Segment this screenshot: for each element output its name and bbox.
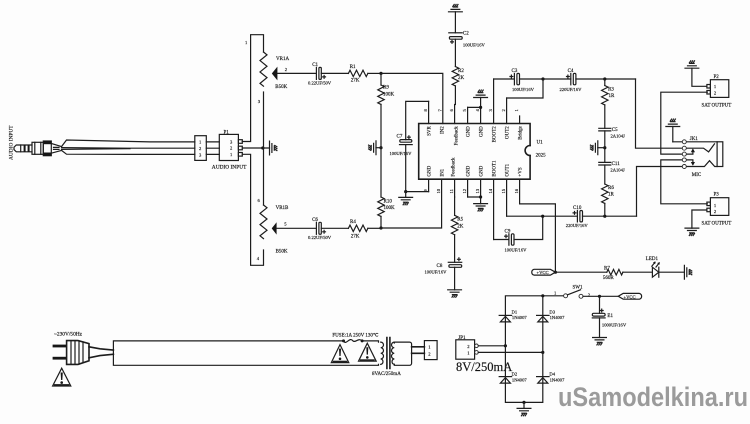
wire C8 to ground (454, 267, 456, 290)
ground pins 12,13 (468, 197, 481, 204)
svg-text:1N4007: 1N4007 (512, 315, 528, 320)
pin labels top row (427, 125, 523, 142)
capacitor C1 (308, 63, 332, 86)
wire VR1B wiper to C6 (277, 227, 317, 229)
resistor R3 (602, 79, 615, 105)
transformer secondary coil (392, 342, 395, 364)
wire C9 to OUT1 node (514, 216, 543, 239)
connector JP1 (456, 336, 512, 374)
svg-text:GND: GND (479, 165, 484, 176)
audio jack plug (14, 141, 62, 156)
switch arrow pin3 up (686, 150, 693, 154)
svg-text:OUT1: OUT1 (505, 163, 510, 176)
svg-text:0.22UF/50V: 0.22UF/50V (308, 81, 332, 86)
svg-text:14: 14 (488, 188, 493, 193)
svg-text:C5: C5 (612, 128, 618, 133)
wire C1 to R1 (321, 72, 348, 74)
svg-text:2K: 2K (457, 225, 464, 230)
svg-text:SAT OUTPUT: SAT OUTPUT (702, 222, 732, 227)
svg-text:P2: P2 (714, 75, 720, 80)
pin stubs bottom (429, 179, 520, 239)
wire pin15 OUT1 to C10 (507, 215, 578, 217)
svg-text:JK1: JK1 (690, 137, 699, 142)
svg-text:VR1A: VR1A (276, 57, 289, 62)
wires connector to P1 (206, 142, 219, 155)
ground below C7 (405, 192, 407, 198)
svg-text:R2: R2 (458, 69, 464, 74)
capacitor C4 (560, 69, 583, 92)
svg-text:11: 11 (449, 188, 454, 193)
op-amp IC U1 TEA2025 body (419, 124, 546, 180)
wire R7 to LED1 (623, 271, 653, 273)
svg-text:FUSE:1A 250V 130℃: FUSE:1A 250V 130℃ (332, 333, 378, 339)
plug shaft rings (21, 145, 32, 152)
svg-text:B50K: B50K (275, 85, 287, 90)
svg-text:R1: R1 (350, 65, 356, 70)
svg-text:GND: GND (479, 126, 484, 137)
wire R9 to mid node (380, 104, 382, 147)
svg-text:C6: C6 (312, 218, 318, 223)
potentiometer VR1B (257, 198, 289, 261)
capacitor C11 (599, 162, 625, 172)
svg-text:C10: C10 (573, 206, 582, 211)
svg-text:8VAC/250mA: 8VAC/250mA (372, 372, 401, 377)
svg-text:R9: R9 (383, 86, 389, 91)
svg-text:2A104J: 2A104J (611, 134, 626, 139)
sleeve line pin1 to frame (673, 141, 717, 143)
svg-text:GND: GND (466, 165, 471, 176)
mains cable box (113, 341, 378, 365)
svg-text:1R: 1R (608, 193, 615, 198)
svg-text:0.22UF/50V: 0.22UF/50V (308, 235, 332, 240)
ground above pins 4,5 (468, 98, 481, 108)
svg-text:R6: R6 (608, 186, 614, 191)
tip contact pin2 with spring (686, 144, 714, 152)
jack frame (717, 142, 723, 167)
svg-text:E1: E1 (607, 314, 613, 319)
node R10/R4/IN1 (379, 226, 382, 229)
ground below bridge (522, 401, 525, 404)
svg-text:100UF/16V: 100UF/16V (390, 151, 413, 156)
audio cable (62, 140, 195, 154)
svg-text:D3: D3 (549, 309, 555, 314)
svg-text:C11: C11 (612, 162, 621, 167)
svg-text:BOOT2: BOOT2 (492, 126, 497, 143)
svg-text:C9: C9 (505, 229, 511, 234)
wire pin8 SVR to C7 (406, 101, 429, 139)
svg-text:2A104J: 2A104J (610, 168, 625, 173)
wire node to C4 (543, 78, 571, 80)
svg-text:220UF/16V: 220UF/16V (566, 223, 589, 228)
node P1 pin2 / pot return (261, 146, 264, 149)
svg-text:JP1: JP1 (458, 336, 466, 341)
wire C10 to node B (583, 215, 637, 217)
svg-text:10: 10 (436, 188, 441, 193)
resistor R6 (602, 165, 615, 203)
svg-text:100K: 100K (383, 92, 395, 97)
resistor R9 (378, 73, 395, 104)
resistor R2 (452, 39, 464, 86)
plug collar (43, 141, 51, 156)
wire P1 pin2 to ground (242, 147, 269, 149)
wire C3 to node / jog to pin2 OUT2 (507, 79, 543, 98)
resistor R1 (348, 65, 367, 83)
wire pin14 BOOT1 to C9 (494, 239, 509, 241)
svg-text:220UF/16V: 220UF/16V (560, 87, 583, 92)
svg-text:12: 12 (462, 188, 467, 193)
wire LED1 to ground (659, 271, 684, 273)
LED LED1 (646, 257, 660, 277)
wire VR1A bottom to VR1B top (263, 92, 265, 205)
capacitor C6 (308, 218, 332, 240)
wire R1 to IN2 node (368, 72, 381, 74)
svg-text:R10: R10 (384, 199, 393, 204)
wires transformer to connector (412, 347, 425, 354)
+VCC flag right (618, 293, 641, 299)
diode D4 1N4007 (537, 372, 566, 384)
svg-text:MIC: MIC (692, 173, 702, 178)
svg-text:+VCC: +VCC (537, 270, 549, 275)
wire R6 to node B (604, 203, 606, 216)
wire JP1 pin2 to bridge left (478, 345, 505, 347)
svg-text:D4: D4 (549, 372, 555, 377)
Feedback labels center (451, 126, 459, 177)
wire R3 to C5 (604, 105, 606, 128)
svg-text:R3: R3 (608, 87, 614, 92)
svg-text:SW1: SW1 (573, 286, 584, 291)
wire C7 to ground node (405, 145, 407, 192)
wire R10 to lower node (380, 216, 382, 228)
potentiometer VR1A (245, 40, 289, 104)
+VCC flag left (532, 269, 556, 275)
svg-text:Feedback: Feedback (451, 157, 456, 177)
capacitor C10 (566, 206, 589, 228)
wire C4 to node A (576, 78, 636, 80)
node R1/R9/IN2 (379, 72, 382, 75)
svg-text:+VCC: +VCC (624, 294, 636, 299)
svg-text:IN1: IN1 (440, 168, 445, 176)
ground left of mid node (598, 147, 605, 149)
svg-text:D1: D1 (512, 309, 518, 314)
wire JP1 pin1 to bridge right (478, 351, 543, 353)
transformer secondary enclosure (394, 342, 411, 365)
wire P2 pin2 down to JK1 pin3 (661, 92, 708, 154)
svg-text:LED1: LED1 (646, 257, 659, 262)
plug tip (14, 145, 21, 152)
svg-text:GND: GND (427, 165, 432, 176)
wire node to pin 7 IN2 (381, 73, 443, 123)
switch SW1 (554, 286, 600, 299)
svg-text:IN2: IN2 (440, 126, 445, 134)
svg-text:SVR: SVR (427, 126, 432, 136)
svg-text:OUT2: OUT2 (505, 126, 510, 139)
svg-text:+VS: +VS (518, 167, 523, 176)
wire C5 to mid node (604, 131, 606, 163)
svg-text:27K: 27K (351, 235, 360, 240)
switch arrow pin4 down (686, 160, 693, 164)
svg-text:R4: R4 (350, 220, 356, 225)
svg-text:C3: C3 (512, 69, 518, 74)
svg-text:16: 16 (514, 188, 519, 193)
connector P2 (685, 61, 731, 109)
svg-text:2025: 2025 (536, 154, 547, 159)
node C7/pin9 ground (404, 190, 407, 193)
resistor R4 (348, 220, 367, 240)
svg-text:C8: C8 (437, 264, 443, 269)
capacitor E1 (592, 296, 627, 345)
svg-text:AUDIO INPUT: AUDIO INPUT (9, 125, 15, 160)
pin labels bottom row (427, 160, 523, 177)
svg-text:Bridge: Bridge (518, 125, 523, 139)
ground below P3 (692, 210, 707, 228)
pin stubs top (429, 79, 520, 124)
svg-text:C2: C2 (463, 32, 469, 37)
svg-text:8V/250mA: 8V/250mA (456, 360, 512, 374)
wire pin16 +VS to +VCC (520, 204, 556, 272)
wire to +VCC flag right (600, 295, 619, 297)
svg-text:GND: GND (466, 126, 471, 137)
transformer T primary coil (381, 342, 384, 364)
ground left of node (376, 147, 381, 149)
warning triangle 1 in box (331, 345, 349, 363)
svg-text:D2: D2 (512, 372, 518, 377)
diode D2 1N4007 (499, 372, 527, 384)
pin numbers bottom (423, 188, 519, 193)
capacitor C5 (599, 128, 625, 139)
resistor R5 (451, 197, 463, 235)
wire pin3 BOOT2 to C3 (494, 78, 515, 80)
svg-text:15: 15 (501, 188, 506, 193)
ground right of LED (684, 265, 691, 279)
AC plug (53, 341, 114, 365)
fuse FUSE:1A (332, 333, 378, 343)
wire node A down to JK1 pin2 (636, 79, 683, 148)
svg-text:SAT OUTPUT: SAT OUTPUT (702, 104, 732, 109)
svg-text:27K: 27K (351, 79, 360, 84)
wire R5 to C8 (454, 235, 456, 263)
resistor R7 (603, 266, 623, 281)
svg-text:C1: C1 (312, 63, 318, 68)
svg-text:R5: R5 (457, 218, 463, 223)
node R9/R10/ground (379, 146, 382, 149)
transformer output connector (424, 341, 437, 360)
diode D3 1N4007 (537, 309, 566, 322)
diode D1 1N4007 (499, 309, 527, 322)
plug body (32, 142, 43, 154)
capacitor C3 (510, 69, 535, 92)
capacitor C7 (390, 135, 413, 156)
resistor R10 (378, 148, 395, 217)
warning triangle 2 in box (359, 343, 377, 361)
svg-text:R7: R7 (604, 266, 610, 271)
svg-text:560R: 560R (603, 276, 615, 281)
svg-text:C7: C7 (397, 135, 403, 140)
ground above P2 (692, 68, 707, 86)
svg-text:1N4007: 1N4007 (512, 377, 528, 382)
wire pin9 to ground node (406, 191, 429, 193)
svg-text:AUDIO INPUT: AUDIO INPUT (212, 164, 247, 170)
wire VR1A wiper to C1 (277, 72, 316, 74)
transformer core (387, 338, 390, 369)
wire R2 to pin 6 (454, 86, 456, 105)
pin numbers top (423, 109, 519, 112)
bridge rails (505, 296, 563, 403)
svg-text:P3: P3 (714, 192, 720, 197)
svg-text:U1: U1 (537, 141, 544, 146)
wire C6 to R4 (321, 227, 348, 229)
svg-text:100UF/16V: 100UF/16V (425, 270, 448, 275)
capacitor C2 with ground above (449, 4, 486, 47)
wire R4 to node (368, 227, 381, 229)
svg-text:P1: P1 (224, 130, 230, 135)
wire P1 pin1 down to pot (242, 154, 263, 265)
ring contact pin5 with spring (686, 161, 717, 167)
ground right of P1 (270, 141, 277, 155)
svg-text:~230V/50Hz: ~230V/50Hz (54, 332, 83, 338)
warning triangle below plug (53, 368, 71, 386)
svg-text:100K: 100K (384, 206, 396, 211)
connector P1 (212, 130, 247, 170)
wire P1 pin3 up to pot (242, 35, 263, 142)
wire node B up to JK1 pin5 (637, 167, 683, 217)
wire +VCC node to R7 (555, 271, 606, 273)
svg-text:100UF/16V: 100UF/16V (512, 87, 535, 92)
headphone jack JK1 (666, 119, 723, 178)
svg-text:VR1B: VR1B (276, 206, 289, 211)
svg-text:uSamodelkina.ru: uSamodelkina.ru (558, 382, 748, 412)
capacitor C8 (425, 258, 462, 275)
svg-text:B50K: B50K (276, 250, 288, 255)
jack pin circles (682, 140, 686, 169)
strain relief cone (51, 144, 61, 154)
svg-text:BOOT1: BOOT1 (492, 160, 497, 177)
connector P3 (685, 192, 731, 235)
wire node to pin 10 IN1 (381, 179, 442, 228)
capacitor C9 (505, 229, 528, 252)
svg-text:Feedback: Feedback (454, 126, 459, 146)
svg-text:1000UF/16V: 1000UF/16V (602, 323, 627, 328)
svg-text:C4: C4 (568, 69, 574, 74)
wire P3 pin1 up to JK1 pin4 (661, 160, 708, 204)
svg-text:1R: 1R (609, 94, 616, 99)
svg-text:13: 13 (475, 188, 480, 193)
ground above JK1 (672, 127, 674, 142)
svg-text:1N4007: 1N4007 (550, 315, 566, 320)
svg-text:100UF/16V: 100UF/16V (505, 247, 528, 252)
svg-text:2K: 2K (458, 76, 465, 81)
cable end connector (195, 136, 207, 161)
svg-text:100UF/16V: 100UF/16V (463, 42, 486, 47)
